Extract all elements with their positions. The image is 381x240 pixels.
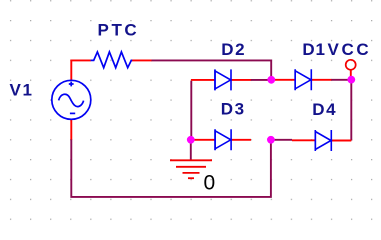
wire bottom loop V1 to D3/D4 junction xyxy=(71,139,271,197)
pin D3 right xyxy=(231,139,251,141)
wire D1 to VCC junction xyxy=(331,79,348,81)
svg-text:VCC: VCC xyxy=(328,40,372,59)
wire junction to D4 xyxy=(275,139,293,141)
resistor PTC xyxy=(91,52,133,68)
svg-text:D2: D2 xyxy=(221,40,246,59)
junction dot VCC xyxy=(347,76,355,84)
pin D1 left xyxy=(275,79,295,81)
port VCC bubble xyxy=(346,60,356,70)
junction dot rail/D3/gnd xyxy=(187,136,195,144)
svg-text:D1: D1 xyxy=(302,40,325,59)
source V1 xyxy=(52,80,91,119)
ground symbol xyxy=(170,160,212,178)
svg-text:D4: D4 xyxy=(312,100,337,119)
pin D4 left xyxy=(292,139,315,141)
pin D2 right xyxy=(231,79,251,81)
diode D4 xyxy=(315,130,331,151)
svg-text:0: 0 xyxy=(204,172,216,195)
svg-text:V1: V1 xyxy=(10,81,34,100)
diode D2 xyxy=(215,69,231,90)
junction dot D2/D1 xyxy=(267,76,275,84)
pin resistor right xyxy=(131,59,151,61)
pin D1 right xyxy=(312,79,332,81)
pin VCC port xyxy=(350,70,352,79)
svg-text:PTC: PTC xyxy=(98,21,140,40)
svg-text:D3: D3 xyxy=(221,100,246,119)
wire left rail xyxy=(190,81,192,140)
pin D4 right xyxy=(332,140,352,142)
diode D3 xyxy=(215,129,231,150)
pin D2 left xyxy=(191,79,215,81)
pin D3 left xyxy=(194,139,216,141)
wire top from resistor to corner xyxy=(151,60,271,76)
wire right rail xyxy=(350,80,352,141)
pin V1 top + resistor left pin (red corner) xyxy=(71,60,91,80)
junction dot D3/D4 xyxy=(267,136,275,144)
pin V1 bottom xyxy=(70,119,72,139)
wire ground stub xyxy=(190,141,192,160)
wire D2 to junction xyxy=(251,79,269,81)
diode D1 xyxy=(295,69,311,90)
